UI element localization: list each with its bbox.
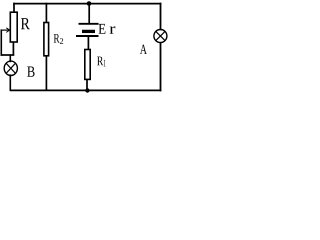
wire lamp B bottom lead	[9, 74, 11, 91]
battery E r plate short thick	[82, 30, 95, 33]
label E r	[99, 24, 116, 34]
resistor R1	[85, 50, 90, 80]
wire battery to R1 lead	[87, 36, 89, 50]
wire R2 bottom lead	[45, 56, 47, 91]
wire battery top lead	[88, 4, 90, 24]
resistor R (rheostat body)	[10, 12, 17, 42]
node junction dot bottom	[85, 88, 89, 92]
label R	[21, 18, 30, 29]
wire R1 bottom lead	[86, 79, 88, 91]
wire rheostat bottom lead	[12, 42, 14, 56]
lamp B	[4, 61, 17, 75]
label B	[27, 66, 34, 76]
wire wiper down left edge	[0, 29, 2, 55]
wire right upper segment	[160, 3, 162, 31]
wire bottom horizontal	[10, 89, 161, 91]
label A	[140, 45, 147, 54]
wire R2 top lead	[45, 3, 47, 23]
label R1	[97, 57, 106, 67]
node junction dot top	[87, 1, 92, 6]
battery E r plate long top	[79, 23, 99, 25]
lamp A	[154, 30, 167, 43]
label R2	[54, 34, 63, 44]
rheostat wiper arrow	[1, 28, 10, 33]
wire rheostat top lead	[13, 3, 15, 13]
battery E r plate long bottom	[76, 35, 99, 37]
wire right lower segment	[160, 42, 162, 91]
wire top horizontal	[13, 3, 161, 5]
resistor R2	[44, 23, 49, 56]
wire connector horizontal	[1, 54, 15, 56]
wire lamp B top lead	[9, 54, 11, 62]
